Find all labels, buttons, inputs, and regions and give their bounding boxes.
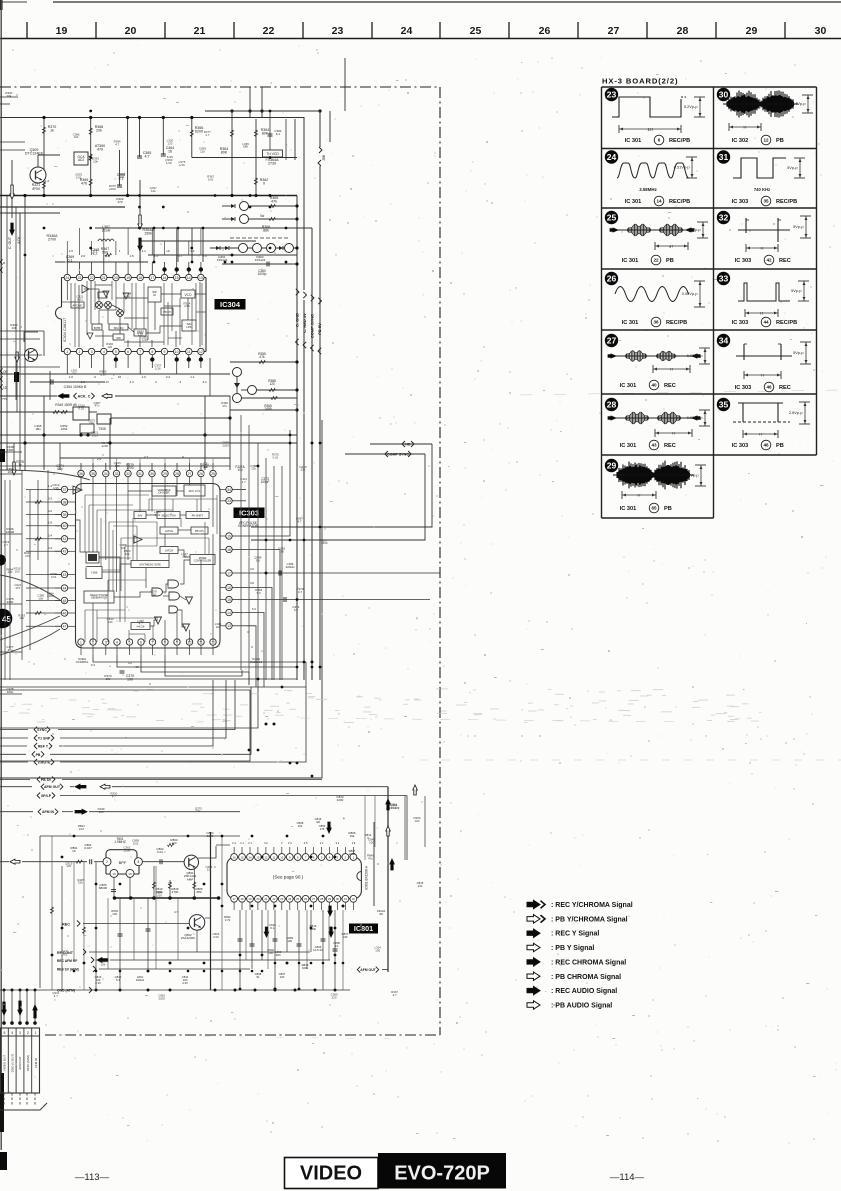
schematic border dash-dot frame: [0, 86, 440, 88]
svg-text:CONTROLLER: CONTROLLER: [194, 560, 211, 563]
svg-text:GND (AFM): GND (AFM): [57, 989, 75, 993]
svg-text:11: 11: [272, 855, 275, 859]
svg-text:ctl: ctl: [153, 293, 156, 297]
svg-text:4.5: 4.5: [304, 841, 308, 845]
svg-text:28: 28: [607, 400, 617, 410]
svg-text:15: 15: [175, 276, 179, 280]
svg-text:TH VCD: TH VCD: [266, 152, 279, 156]
svg-text:44: 44: [63, 586, 67, 590]
svg-text:39: 39: [63, 513, 67, 517]
svg-text:10: 10: [335, 944, 339, 948]
svg-text:REC/PB: REC/PB: [666, 320, 687, 326]
svg-text:2.4: 2.4: [48, 533, 52, 537]
svg-text:2200: 2200: [109, 187, 116, 191]
svg-text:: REC CHROMA Signal: : REC CHROMA Signal: [551, 959, 626, 966]
svg-text:100pF: 100pF: [260, 480, 269, 484]
svg-text:22uH: 22uH: [102, 229, 111, 233]
svg-text:REC/PB: REC/PB: [669, 199, 690, 205]
svg-text:IC 301: IC 301: [625, 199, 641, 205]
svg-text:43: 43: [63, 573, 67, 577]
svg-text:3.2: 3.2: [48, 509, 52, 513]
svg-text:INV: INV: [138, 514, 143, 518]
svg-text:2.1: 2.1: [248, 841, 252, 845]
svg-text:36: 36: [653, 320, 659, 325]
svg-text:4.7: 4.7: [205, 133, 209, 137]
IC303 top pin row 36..25: [78, 470, 84, 476]
svg-text:5.6: 5.6: [257, 591, 261, 595]
svg-text:1000p: 1000p: [258, 272, 267, 276]
svg-text:100: 100: [15, 569, 20, 573]
svg-text:4: 4: [11, 1031, 13, 1035]
svg-text:2.4: 2.4: [288, 841, 292, 845]
svg-text:1/16: 1/16: [156, 894, 162, 898]
svg-text:H: H: [638, 493, 641, 498]
svg-text:5: 5: [115, 350, 117, 354]
svg-text:479: 479: [97, 148, 103, 152]
svg-text:10k: 10k: [38, 597, 43, 601]
svg-text:8: 8: [151, 350, 153, 354]
svg-text:0.01: 0.01: [155, 513, 161, 517]
svg-text:PB CTL: PB CTL: [195, 529, 205, 533]
svg-text:VCO: VCO: [185, 293, 192, 297]
svg-text:19: 19: [126, 276, 130, 280]
svg-text:5Vp-p: 5Vp-p: [787, 165, 797, 170]
svg-text:120: 120: [269, 382, 275, 386]
svg-text:22k: 22k: [301, 468, 306, 472]
HD / COMP SYNC labels: [370, 443, 432, 445]
svg-text:27: 27: [607, 336, 617, 346]
svg-text:32: 32: [126, 472, 130, 476]
svg-text:22: 22: [272, 897, 276, 901]
svg-text:HD: HD: [405, 443, 411, 447]
svg-text:10k: 10k: [7, 94, 12, 98]
svg-text:H: H: [761, 246, 764, 251]
svg-text:27: 27: [608, 25, 620, 37]
svg-text:0.02Vp-p: 0.02Vp-p: [687, 415, 703, 420]
svg-text:40: 40: [63, 524, 67, 528]
svg-text:REC: REC: [664, 443, 676, 449]
svg-text:120: 120: [66, 864, 71, 868]
svg-text:19: 19: [227, 534, 231, 538]
ruler line: [0, 38, 841, 40]
svg-text:10k: 10k: [93, 160, 98, 164]
page left edge: [0, 0, 2, 1150]
ruler top edge line: [2, 1, 27, 3]
svg-text:1.4: 1.4: [105, 254, 110, 258]
IC303 bottom pin row 1..12: [78, 639, 84, 645]
svg-text:120: 120: [216, 625, 221, 629]
svg-text:26: 26: [607, 274, 617, 284]
svg-text:1/16: 1/16: [166, 161, 172, 165]
svg-text:1 Vp-p: 1 Vp-p: [687, 473, 698, 478]
svg-text:47u: 47u: [368, 856, 373, 860]
svg-text:23: 23: [280, 897, 284, 901]
svg-text:1.8: 1.8: [48, 520, 52, 524]
svg-text:AFM OUT: AFM OUT: [18, 1056, 22, 1070]
footer VIDEO badge: [285, 1158, 379, 1189]
svg-text:24: 24: [401, 25, 413, 37]
svg-text:46: 46: [766, 385, 772, 390]
IC303 right side wires: [246, 430, 290, 536]
svg-text:13: 13: [256, 855, 260, 859]
svg-text:4: 4: [103, 350, 105, 354]
svg-text:Y1 SNP: Y1 SNP: [38, 737, 51, 741]
svg-text:25: 25: [470, 25, 482, 37]
more verticals between ICs: [240, 415, 242, 670]
svg-text:10k: 10k: [19, 616, 24, 620]
svg-text:0.01: 0.01: [92, 433, 98, 437]
IC304 pins top row 24..13: [64, 274, 70, 280]
svg-text:24: 24: [65, 276, 69, 280]
svg-text:COMP SYNC: COMP SYNC: [310, 314, 315, 338]
right bus wires: [205, 111, 320, 147]
verticals in AFM area: [61, 866, 63, 990]
svg-text:0.01: 0.01: [62, 953, 68, 957]
svg-text:IC304: IC304: [220, 300, 241, 309]
svg-text:SW: SW: [116, 336, 121, 340]
svg-text:10k: 10k: [101, 963, 106, 967]
svg-text:22k: 22k: [89, 421, 94, 425]
svg-text:14: 14: [656, 199, 662, 204]
svg-text:IC 301: IC 301: [620, 383, 636, 389]
svg-text:12: 12: [264, 855, 268, 859]
svg-text:C354 100Kb B: C354 100Kb B: [64, 385, 87, 389]
svg-text:1/16: 1/16: [179, 163, 185, 167]
svg-text:H: H: [760, 311, 763, 316]
svg-text:16: 16: [233, 855, 237, 859]
svg-text:H: H: [670, 367, 673, 372]
svg-text:41: 41: [63, 537, 67, 541]
svg-text:22k: 22k: [78, 881, 83, 885]
svg-text:5Vp-p: 5Vp-p: [793, 350, 803, 355]
svg-text:AFM OUT: AFM OUT: [360, 968, 376, 972]
svg-text:VIDEO OUT: VIDEO OUT: [3, 1055, 7, 1072]
svg-text:12: 12: [199, 350, 203, 354]
edge connector circle 45: [0, 609, 12, 629]
svg-text:17: 17: [150, 276, 154, 280]
svg-text:SP/LP: SP/LP: [41, 794, 52, 798]
svg-text:26: 26: [304, 897, 308, 901]
svg-text:120: 120: [107, 345, 112, 349]
IC801 black label: [349, 924, 378, 934]
svg-text:0.01: 0.01: [77, 297, 83, 301]
svg-text:PH SHIFT: PH SHIFT: [192, 515, 204, 518]
svg-text:1.1: 1.1: [240, 841, 244, 845]
svg-text:IC 303: IC 303: [735, 385, 751, 391]
svg-text:470: 470: [25, 554, 30, 558]
svg-text:AFM OUT: AFM OUT: [44, 785, 61, 789]
svg-text:22k: 22k: [251, 467, 256, 471]
IC303 left feed wires: [26, 489, 61, 491]
svg-text:35: 35: [763, 199, 769, 204]
svg-text:1.9MHZ: 1.9MHZ: [114, 840, 125, 844]
svg-text:REF Y: REF Y: [38, 745, 49, 749]
svg-text:24: 24: [607, 152, 617, 162]
svg-text:22k: 22k: [121, 546, 126, 550]
IC303 internal wires: [99, 557, 131, 564]
svg-text:SYNTHESIC GATE: SYNTHESIC GATE: [139, 564, 161, 567]
svg-text:22k: 22k: [72, 372, 77, 376]
svg-text:100: 100: [268, 951, 273, 955]
svg-text:22k: 22k: [96, 129, 102, 133]
svg-text:4.3V: 4.3V: [182, 981, 188, 985]
svg-text:REC: REC: [62, 923, 70, 927]
IC303 gates: [152, 588, 162, 596]
svg-text:LPF: LPF: [186, 325, 192, 329]
svg-text:34: 34: [719, 336, 729, 346]
svg-text:20: 20: [256, 897, 260, 901]
svg-text:33: 33: [719, 274, 729, 284]
svg-text:C. GND: C. GND: [295, 313, 300, 327]
svg-text:18: 18: [240, 897, 244, 901]
svg-text:42: 42: [766, 258, 772, 263]
svg-text:0.5Vp-p: 0.5Vp-p: [687, 227, 701, 232]
svg-text:47k: 47k: [271, 200, 277, 204]
trimmer cluster top: [240, 202, 249, 211]
svg-text:4.7: 4.7: [393, 993, 397, 997]
svg-text:6.1: 6.1: [276, 132, 281, 136]
svg-text:18: 18: [138, 276, 142, 280]
extra wires top-left: [0, 96, 18, 98]
svg-text:100: 100: [236, 515, 241, 519]
svg-text:H: H: [672, 431, 675, 436]
svg-text:10u: 10u: [7, 470, 12, 474]
left edge chevrons: [0, 259, 3, 264]
svg-text:PB: PB: [36, 753, 41, 757]
TH VCD boxed label: [263, 150, 283, 157]
svg-text:2300: 2300: [7, 448, 14, 452]
svg-text:100: 100: [298, 824, 303, 828]
svg-text:30: 30: [815, 25, 827, 37]
svg-text:2700: 2700: [48, 238, 56, 242]
AFM extra density: [51, 836, 53, 990]
svg-text:12: 12: [763, 138, 769, 143]
svg-text:2SA1240K: 2SA1240K: [181, 936, 195, 940]
svg-text:10k: 10k: [74, 135, 79, 139]
svg-text:86k: 86k: [263, 229, 269, 233]
svg-text:GND (V.OUT): GND (V.OUT): [10, 1054, 14, 1072]
curves to IC303: [0, 470, 90, 480]
svg-text:—114—: —114—: [610, 1172, 645, 1183]
svg-text:4: 4: [116, 640, 118, 644]
svg-text:1/16: 1/16: [100, 373, 106, 377]
svg-text:4.6: 4.6: [250, 567, 254, 571]
svg-text:28: 28: [677, 25, 689, 37]
svg-text:178: 178: [320, 827, 325, 831]
svg-text:100: 100: [151, 592, 156, 596]
svg-text:: REC AUDIO Signal: : REC AUDIO Signal: [551, 988, 617, 995]
svg-text:29: 29: [746, 25, 758, 37]
svg-text:10k: 10k: [196, 809, 201, 813]
svg-text:1.5: 1.5: [130, 254, 135, 258]
svg-text:120: 120: [182, 555, 187, 559]
svg-text:2.8Vp-p: 2.8Vp-p: [789, 410, 803, 415]
svg-text:10k: 10k: [237, 468, 243, 472]
left chevron tags: [34, 727, 37, 733]
svg-text:35: 35: [91, 472, 95, 476]
svg-text:4.7: 4.7: [139, 622, 143, 626]
svg-text:23: 23: [78, 276, 82, 280]
nested return wires: [0, 655, 306, 687]
svg-text:42: 42: [63, 550, 67, 554]
svg-text:14: 14: [227, 611, 231, 615]
svg-text:1.6: 1.6: [69, 249, 74, 253]
svg-text:0.01: 0.01: [133, 842, 139, 846]
svg-text:Y189: Y189: [91, 571, 98, 575]
svg-text:10: 10: [280, 855, 284, 859]
svg-text:1: 1: [35, 1031, 37, 1035]
diode chain row: [210, 247, 297, 249]
svg-text:0.01: 0.01: [78, 407, 84, 411]
svg-text:1.6: 1.6: [69, 375, 74, 379]
svg-text:1/16: 1/16: [155, 366, 161, 370]
scatter junction dots: [138, 227, 141, 230]
IC801: [227, 857, 361, 899]
transistor Q309: [30, 167, 46, 183]
svg-text:IC304 CX8117: IC304 CX8117: [63, 318, 67, 343]
svg-text:100: 100: [279, 549, 284, 553]
svg-text:120: 120: [7, 570, 12, 574]
svg-text:H: H: [761, 373, 764, 378]
svg-text:68000: 68000: [99, 886, 108, 890]
svg-text:REC: REC: [779, 258, 791, 264]
svg-text:47: 47: [63, 625, 67, 629]
svg-text:4700: 4700: [172, 890, 179, 894]
svg-text:2.2: 2.2: [232, 841, 236, 845]
svg-text:1H: 1H: [647, 127, 652, 132]
svg-text:??9: ??9: [2, 397, 7, 401]
svg-text:2.7: 2.7: [144, 455, 149, 459]
svg-text:: REC Y Signal: : REC Y Signal: [551, 931, 599, 938]
svg-text:REC/PB: REC/PB: [669, 138, 690, 144]
svg-text:2200: 2200: [337, 798, 344, 802]
svg-text:5: 5: [3, 1031, 5, 1035]
svg-text:1/16: 1/16: [53, 486, 59, 490]
svg-text:10k: 10k: [125, 552, 130, 556]
svg-text:1Bu: 1Bu: [35, 427, 41, 431]
svg-text:3.3: 3.3: [48, 497, 52, 501]
svg-text:IC801 BX1508-A: IC801 BX1508-A: [365, 865, 369, 890]
svg-text:DIVIDER: DIVIDER: [159, 491, 170, 495]
IC304 internals: [71, 302, 84, 308]
svg-text:SYNC: SYNC: [37, 728, 47, 732]
svg-text:0.01: 0.01: [76, 176, 82, 180]
svg-text:0.4Vp-p: 0.4Vp-p: [792, 101, 806, 106]
svg-text:30: 30: [150, 472, 154, 476]
svg-text:29: 29: [607, 461, 617, 471]
svg-text:2700: 2700: [126, 466, 133, 470]
svg-text:HX-3 BOARD(2/2): HX-3 BOARD(2/2): [602, 77, 678, 86]
svg-text:470: 470: [15, 586, 20, 590]
svg-text:35: 35: [719, 400, 729, 410]
svg-text:19: 19: [248, 897, 252, 901]
svg-text:32: 32: [719, 213, 729, 223]
svg-text:IC 303: IC 303: [732, 443, 748, 449]
svg-text:AFC CTL: AFC CTL: [189, 489, 201, 493]
svg-text:4.7k: 4.7k: [225, 918, 231, 922]
waveform cell 30: [717, 88, 730, 101]
svg-text:: PB Y Signal: : PB Y Signal: [551, 945, 594, 952]
svg-text:PB 5V: PB 5V: [317, 323, 322, 335]
svg-text:IC 301: IC 301: [622, 320, 638, 326]
svg-text:46: 46: [763, 443, 769, 448]
svg-text:19: 19: [56, 25, 68, 37]
svg-text:680: 680: [276, 953, 281, 957]
J5B break: [319, 147, 322, 153]
svg-text:Va: Va: [260, 214, 264, 218]
svg-text:8: 8: [138, 860, 140, 864]
svg-text:PB SV: PB SV: [41, 778, 52, 782]
svg-text:IC 303: IC 303: [735, 258, 751, 264]
svg-text:6200: 6200: [195, 130, 203, 134]
svg-text:3.7: 3.7: [178, 254, 183, 258]
svg-text:1/16: 1/16: [78, 827, 84, 831]
svg-text:IC 302: IC 302: [732, 138, 748, 144]
svg-text:H: H: [759, 432, 762, 437]
svg-text:16: 16: [128, 872, 132, 876]
svg-text:24: 24: [288, 897, 292, 901]
svg-text:3.4: 3.4: [202, 380, 207, 384]
svg-text:18: 18: [227, 548, 231, 552]
svg-text:6: 6: [658, 138, 661, 143]
svg-text:+: +: [343, 816, 346, 821]
svg-text:1/16: 1/16: [184, 304, 190, 308]
svg-text:31: 31: [719, 152, 729, 162]
svg-text:1.7: 1.7: [93, 249, 98, 253]
svg-text:1k: 1k: [50, 129, 54, 133]
svg-text:H: H: [670, 244, 673, 249]
svg-text:J5B: J5B: [322, 154, 326, 161]
IC303 internals: [152, 486, 176, 496]
mid wiring: [0, 373, 230, 375]
connector wires down: [3, 990, 5, 1025]
waveform cell 26: [605, 272, 618, 285]
svg-text:AMP: AMP: [187, 878, 194, 882]
svg-text:BPF: BPF: [119, 860, 127, 865]
svg-text:476: 476: [81, 182, 87, 186]
svg-text:20: 20: [114, 276, 118, 280]
svg-text:11: 11: [187, 350, 191, 354]
svg-text:CX188XL: CX188XL: [76, 660, 89, 664]
svg-text:4.7: 4.7: [294, 608, 299, 612]
svg-text:100: 100: [112, 912, 117, 916]
svg-text:17: 17: [227, 571, 231, 575]
svg-text:100: 100: [343, 935, 348, 939]
svg-text:36: 36: [79, 472, 83, 476]
svg-text:2200: 2200: [349, 852, 356, 856]
IC304 pins bottom row 1..12: [64, 348, 70, 354]
IC303 right pin col: [226, 486, 232, 492]
svg-text:2200: 2200: [47, 594, 54, 598]
IC304 pin stub connections up: [66, 241, 68, 255]
svg-text:IC 303: IC 303: [732, 199, 748, 205]
svg-text:REC: REC: [779, 385, 791, 391]
svg-text:2200: 2200: [222, 444, 229, 448]
svg-text:10 6.3V: 10 6.3V: [313, 948, 323, 952]
waveform cell 23: [605, 88, 618, 101]
svg-text:COMP SYNC: COMP SYNC: [387, 453, 409, 457]
svg-text:T305: T305: [98, 427, 106, 431]
waveform cell 27: [605, 334, 618, 347]
svg-text:34: 34: [104, 472, 108, 476]
svg-text:: PB AUDIO Signal: : PB AUDIO Signal: [551, 1003, 612, 1010]
svg-text:0.4: 0.4: [48, 546, 52, 550]
svg-text:1/16: 1/16: [391, 806, 397, 810]
svg-text:15: 15: [227, 598, 231, 602]
svg-text:R349 150R vB: R349 150R vB: [55, 403, 77, 407]
top wiring area: [205, 110, 320, 112]
svg-text:C. OUT: C. OUT: [8, 236, 12, 249]
